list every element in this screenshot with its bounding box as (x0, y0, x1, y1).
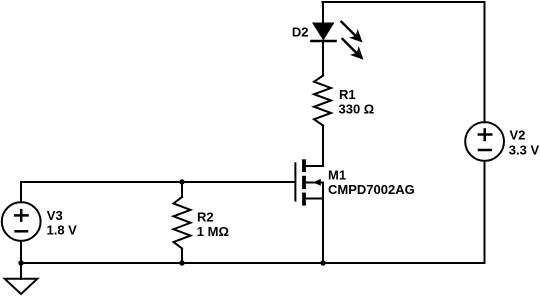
wire V3 top (20, 182, 22, 202)
svg-text:M1: M1 (328, 168, 346, 183)
wire right rail upper (484, 2, 486, 122)
svg-text:D2: D2 (292, 24, 309, 39)
resistor R1 (314, 76, 331, 126)
wire R2 top stub (181, 182, 183, 197)
junction R2 bottom (179, 260, 184, 265)
wire right rail lower (484, 161, 486, 263)
svg-text:V2: V2 (510, 128, 526, 143)
svg-text:V3: V3 (47, 208, 63, 223)
wire bottom rail (21, 262, 485, 264)
junction V3 ground (18, 260, 23, 265)
wire top rail (323, 1, 485, 3)
wire LED anode (322, 2, 324, 23)
resistor R2 (174, 197, 191, 249)
svg-text:1 MΩ: 1 MΩ (197, 224, 229, 239)
svg-text:1.8 V: 1.8 V (47, 223, 78, 238)
LED light arrow 2 (343, 39, 364, 60)
voltage source V2 (465, 122, 504, 161)
svg-text:R2: R2 (197, 209, 214, 224)
wire R1 to M1 drain (306, 126, 324, 167)
wire V3 bottom (20, 241, 22, 263)
LED light arrow 1 (342, 22, 363, 43)
voltage source V3 (2, 202, 41, 241)
wire M1 source to bottom rail (322, 183, 324, 264)
svg-text:R1: R1 (339, 87, 356, 102)
svg-text:CMPD7002AG: CMPD7002AG (328, 182, 415, 197)
junction R2 top (179, 179, 184, 184)
wire gate rail (21, 181, 295, 183)
svg-text:330 Ω: 330 Ω (339, 102, 375, 117)
junction M1 source bottom (320, 260, 325, 265)
wire R2 bottom stub (181, 249, 183, 264)
LED D2 (312, 23, 336, 42)
ground (5, 263, 38, 294)
wire LED cathode to R1 (322, 41, 324, 76)
transistor M1 (295, 159, 323, 205)
svg-text:3.3 V: 3.3 V (509, 143, 540, 158)
